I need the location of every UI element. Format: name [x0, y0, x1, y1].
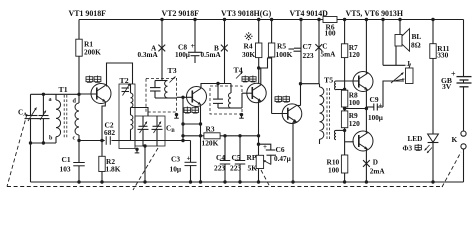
svg-text:+: + — [263, 143, 267, 151]
svg-text:VT3 9018H(G): VT3 9018H(G) — [221, 9, 272, 18]
svg-text:VT1 9018F: VT1 9018F — [69, 9, 107, 18]
svg-text:330: 330 — [437, 51, 448, 60]
svg-text:103: 103 — [60, 165, 71, 174]
svg-text:T3: T3 — [168, 66, 177, 75]
svg-text:200K: 200K — [84, 47, 101, 56]
svg-text:b: b — [49, 135, 53, 142]
svg-text:30K: 30K — [242, 50, 255, 59]
svg-text:LED: LED — [408, 135, 423, 143]
svg-text:B: B — [171, 128, 175, 134]
svg-text:+: + — [187, 154, 191, 163]
svg-text:100μ: 100μ — [175, 51, 190, 59]
svg-text:223: 223 — [230, 164, 241, 173]
svg-text:VT2 9018F: VT2 9018F — [162, 9, 200, 18]
svg-text:100: 100 — [328, 166, 339, 175]
svg-text:3V: 3V — [442, 82, 452, 91]
svg-text:C4: C4 — [216, 153, 225, 162]
svg-text:A: A — [23, 112, 27, 118]
svg-text:223: 223 — [303, 51, 314, 60]
svg-text:T5: T5 — [324, 76, 333, 85]
svg-text:C9: C9 — [370, 95, 379, 104]
svg-text:C: C — [322, 43, 327, 51]
svg-text:5mA: 5mA — [321, 51, 337, 59]
svg-text:100K: 100K — [276, 50, 293, 59]
svg-text:RP: RP — [247, 153, 257, 162]
svg-text:100: 100 — [325, 28, 336, 37]
svg-text:223: 223 — [214, 164, 225, 173]
svg-text:C6: C6 — [276, 145, 285, 154]
svg-text:VT5, VT6 9013H: VT5, VT6 9013H — [346, 9, 404, 18]
svg-text:2mA: 2mA — [370, 168, 386, 176]
svg-text:8Ω: 8Ω — [411, 41, 421, 50]
svg-text:C3: C3 — [171, 155, 180, 164]
svg-text:C7: C7 — [303, 42, 312, 51]
svg-text:+: + — [379, 102, 383, 110]
svg-text:VT4 9014D: VT4 9014D — [290, 9, 329, 18]
svg-text:682: 682 — [104, 128, 115, 137]
svg-text:120K: 120K — [202, 139, 219, 148]
svg-text:0.3mA: 0.3mA — [138, 51, 159, 59]
svg-text:5K: 5K — [248, 164, 258, 173]
svg-text:D: D — [373, 159, 378, 167]
svg-text:0.47μ: 0.47μ — [274, 155, 291, 163]
svg-text:d: d — [73, 98, 77, 105]
svg-text:120: 120 — [349, 119, 360, 128]
svg-text:c: c — [73, 135, 76, 142]
svg-text:R3: R3 — [206, 125, 215, 134]
svg-text:120: 120 — [349, 50, 360, 59]
svg-text:C5: C5 — [232, 153, 241, 162]
svg-text:0.5mA: 0.5mA — [201, 51, 222, 59]
svg-text:T1: T1 — [59, 85, 68, 94]
svg-text:C1: C1 — [62, 155, 71, 164]
svg-text:+: + — [191, 41, 196, 50]
svg-text:Φ3: Φ3 — [403, 145, 413, 153]
svg-text:a: a — [49, 96, 52, 103]
svg-text:100: 100 — [349, 98, 360, 107]
svg-text:K: K — [452, 135, 458, 144]
svg-text:100μ: 100μ — [368, 114, 383, 122]
svg-text:10μ: 10μ — [170, 165, 182, 174]
svg-text:1.8K: 1.8K — [106, 165, 121, 174]
